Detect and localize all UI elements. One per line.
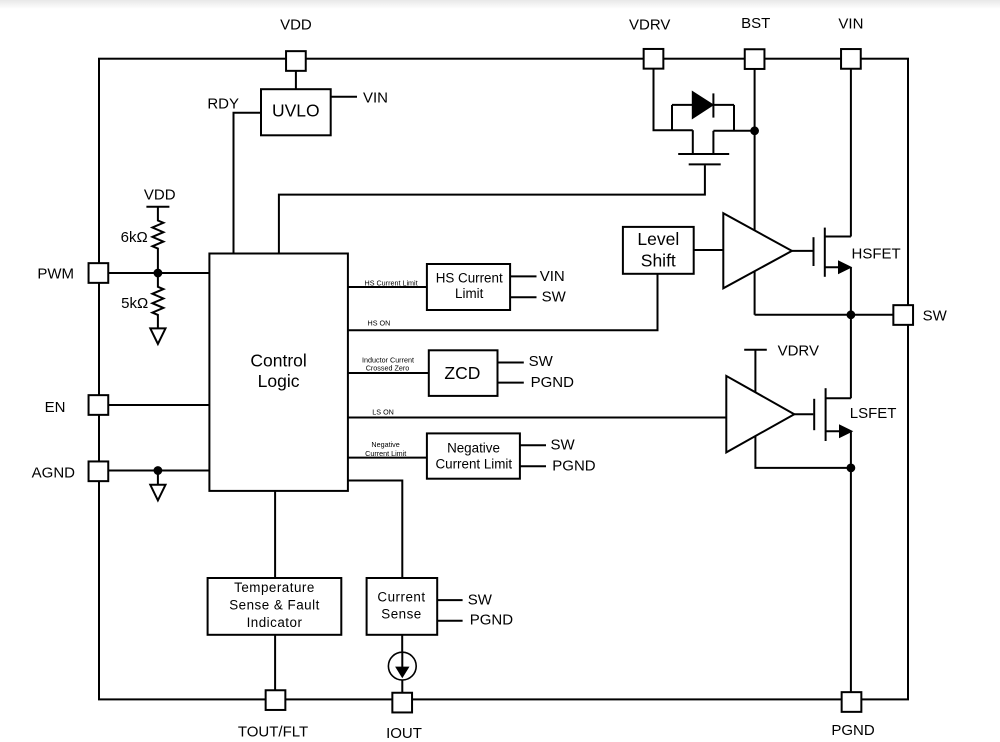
- svg-text:PGND: PGND: [552, 457, 596, 474]
- pin VDD: [286, 51, 306, 71]
- resistor 6kohm: [152, 207, 163, 273]
- transistor HSFET: [813, 237, 815, 266]
- wire inductor current crossed zero signal: [348, 372, 429, 374]
- wire UVLO VIN stub: [331, 96, 357, 98]
- svg-text:Current Limit: Current Limit: [365, 449, 406, 458]
- svg-text:VDD: VDD: [280, 17, 312, 34]
- svg-text:Negative: Negative: [447, 440, 500, 455]
- wire AGND to control logic: [108, 470, 209, 472]
- component U-LevelShift: [623, 227, 694, 274]
- node BST junction: [751, 127, 758, 134]
- svg-text:Level: Level: [637, 229, 679, 249]
- svg-text:IOUT: IOUT: [386, 725, 422, 742]
- wire LS driver output: [794, 413, 813, 415]
- wire HSCL SW stub: [510, 296, 536, 298]
- wire diode branch right riser: [733, 105, 735, 131]
- wire NCL SW stub: [520, 444, 547, 446]
- wire current source to IOUT pin: [401, 680, 403, 693]
- svg-text:UVLO: UVLO: [272, 101, 320, 121]
- IC boundary: [99, 59, 908, 700]
- wire LSFET source to PGND: [850, 431, 852, 692]
- wire bootstrap gate drive: [279, 165, 705, 253]
- svg-text:Shift: Shift: [641, 250, 676, 270]
- svg-text:6kΩ: 6kΩ: [121, 229, 148, 246]
- transistor Q1 bootstrap switch: [692, 130, 694, 154]
- svg-text:HS ON: HS ON: [368, 319, 391, 328]
- svg-text:PGND: PGND: [531, 374, 575, 391]
- pin SW: [893, 305, 913, 325]
- svg-text:Current Limit: Current Limit: [435, 456, 512, 471]
- wire ZCD PGND stub: [498, 382, 524, 384]
- wire RDY from UVLO to control logic: [234, 113, 262, 254]
- wire current sense to source: [401, 635, 403, 652]
- wire VDD pin to UVLO: [295, 71, 297, 89]
- wire LS driver low rail: [755, 430, 851, 468]
- pin TOUT/FLT: [266, 690, 286, 710]
- component U-TemperatureSense: [208, 578, 342, 635]
- wire HSFET source to SW: [850, 267, 852, 398]
- wire negative current limit signal: [348, 457, 427, 459]
- svg-text:Sense: Sense: [381, 607, 421, 622]
- svg-text:Crossed Zero: Crossed Zero: [366, 363, 410, 372]
- wire BST pin down to HS driver: [754, 69, 756, 234]
- wire current sense PGND stub: [437, 620, 462, 622]
- diode D1 bootstrap: [693, 92, 713, 117]
- svg-text:BST: BST: [741, 15, 770, 32]
- wire temperature sense to TOUT pin: [274, 635, 276, 691]
- svg-text:RDY: RDY: [207, 96, 239, 113]
- node VDD rail: [146, 206, 169, 208]
- current source I1: [388, 652, 416, 680]
- svg-text:HSFET: HSFET: [852, 245, 901, 262]
- component U-ZCD: [429, 350, 498, 396]
- svg-text:PGND: PGND: [470, 612, 514, 629]
- node divider junction: [155, 270, 162, 277]
- svg-text:PWM: PWM: [37, 266, 74, 283]
- svg-text:SW: SW: [468, 591, 493, 608]
- wire VDRV pin down: [654, 69, 693, 131]
- wire VDRV supply for LS driver: [744, 349, 767, 351]
- svg-text:SW: SW: [923, 308, 948, 325]
- svg-text:SW: SW: [529, 353, 554, 370]
- svg-text:PGND: PGND: [831, 722, 875, 739]
- svg-text:VDRV: VDRV: [629, 17, 670, 34]
- decorative top gradient band: [0, 0, 1000, 9]
- svg-text:LSFET: LSFET: [850, 405, 897, 422]
- wire HS current limit signal: [348, 286, 427, 288]
- svg-text:VIN: VIN: [540, 268, 565, 285]
- svg-text:LS ON: LS ON: [372, 407, 394, 416]
- wire current sense SW stub: [437, 599, 462, 601]
- svg-text:VIN: VIN: [363, 90, 388, 107]
- component U-ControlLogic: [209, 254, 348, 491]
- svg-text:Limit: Limit: [455, 286, 484, 301]
- component U-CurrentSense: [367, 578, 438, 635]
- svg-text:Control: Control: [250, 350, 306, 370]
- svg-text:HS Current Limit: HS Current Limit: [365, 278, 418, 287]
- wire diode rail: [672, 104, 734, 106]
- wire VIN pin down to HSFET drain: [850, 69, 852, 237]
- wire LS ON signal: [348, 417, 726, 419]
- svg-text:5kΩ: 5kΩ: [121, 295, 148, 312]
- node SW junction: [848, 311, 855, 318]
- component U-UVLO: [261, 89, 331, 135]
- ground AGND: [157, 471, 159, 485]
- svg-text:SW: SW: [551, 437, 576, 454]
- svg-text:Current: Current: [377, 589, 425, 604]
- pin PWM: [89, 263, 109, 283]
- wire FET right terminal to BST: [713, 130, 754, 132]
- svg-text:EN: EN: [45, 399, 66, 416]
- component U-NegativeCurrentLimit: [427, 433, 520, 478]
- op-amp LS gate driver: [726, 376, 794, 453]
- wire HSCL VIN stub: [510, 275, 536, 277]
- component U-HSCurrentLimit: [427, 264, 510, 310]
- pin EN: [89, 395, 109, 415]
- wire NCL PGND stub: [520, 465, 547, 467]
- svg-text:VDD: VDD: [144, 186, 176, 203]
- transistor LSFET: [813, 399, 815, 430]
- svg-text:Logic: Logic: [258, 371, 300, 391]
- pin VIN: [841, 49, 861, 69]
- svg-text:Temperature: Temperature: [234, 580, 315, 595]
- svg-text:VDRV: VDRV: [778, 342, 819, 359]
- resistor 5kohm: [152, 273, 163, 328]
- wire control to current sense: [348, 481, 402, 579]
- wire level shift to HS driver: [694, 249, 724, 251]
- wire HS driver output: [792, 250, 813, 252]
- wire SW rail: [755, 314, 894, 316]
- pin PGND: [842, 692, 862, 712]
- svg-text:HS Current: HS Current: [436, 270, 503, 285]
- wire ZCD SW stub: [498, 362, 524, 364]
- svg-text:AGND: AGND: [32, 465, 76, 482]
- pin AGND: [89, 461, 109, 481]
- op-amp HS gate driver: [723, 213, 792, 288]
- wire HS driver low rail to SW: [754, 262, 756, 315]
- svg-text:Sense & Fault: Sense & Fault: [229, 598, 320, 613]
- wire EN to control logic: [108, 404, 209, 406]
- wire control to temperature sense: [274, 491, 276, 578]
- node AGND junction: [155, 467, 162, 474]
- svg-text:SW: SW: [542, 289, 567, 306]
- wire HS ON signal: [348, 274, 658, 330]
- svg-text:TOUT/FLT: TOUT/FLT: [238, 723, 308, 740]
- pin IOUT: [392, 693, 412, 713]
- ground divider: [150, 328, 165, 344]
- svg-text:VIN: VIN: [838, 16, 863, 33]
- pin BST: [745, 49, 765, 69]
- node LS driver rail junction: [848, 465, 855, 472]
- pin VDRV: [644, 49, 664, 69]
- wire diode branch left riser: [671, 105, 673, 130]
- svg-text:Indicator: Indicator: [247, 615, 303, 630]
- svg-text:ZCD: ZCD: [444, 363, 480, 383]
- wire PWM to control logic: [108, 272, 209, 274]
